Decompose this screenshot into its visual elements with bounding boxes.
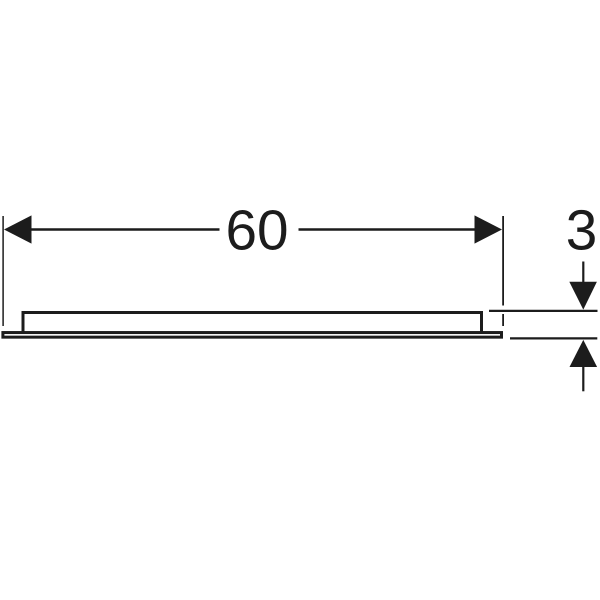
extension line right (upper segment) xyxy=(502,216,504,306)
extension line right (lower segment) xyxy=(502,314,504,326)
arrowhead right xyxy=(475,215,503,243)
svg-text:3: 3 xyxy=(566,200,598,263)
frame (mounting profile) xyxy=(23,313,482,334)
arrow down stem xyxy=(582,262,584,284)
arrow up stem xyxy=(582,367,584,392)
extension line left xyxy=(2,216,4,326)
svg-text:60: 60 xyxy=(225,200,288,263)
arrowhead down xyxy=(569,282,597,310)
reference line top xyxy=(489,310,598,312)
arrowhead up xyxy=(570,340,598,367)
dimension line 60 (right segment) xyxy=(299,228,477,230)
dimension line 60 (left segment) xyxy=(30,228,220,230)
arrowhead left xyxy=(4,215,32,243)
mirror plate xyxy=(3,333,502,338)
reference line bottom xyxy=(510,337,597,339)
